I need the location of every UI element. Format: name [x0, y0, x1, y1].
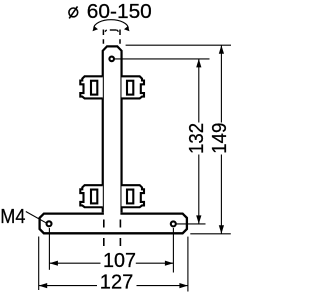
dim 132 vertical: [198, 59, 200, 123]
ext 127 right: [187, 237, 189, 292]
clip lower-left: [80, 185, 103, 207]
pole / vertical bar: [103, 46, 122, 212]
clip lower-right: [122, 185, 145, 207]
top hole: [109, 57, 114, 62]
ext 149 bottom: [190, 233, 231, 235]
arrowheads: [39, 45, 224, 288]
base hole left: [47, 221, 52, 226]
svg-text:107: 107: [103, 250, 136, 272]
149 down: [219, 225, 224, 234]
107 left: [49, 261, 58, 266]
swivel arrow left: [93, 26, 99, 31]
svg-text:132: 132: [186, 123, 208, 154]
clip upper-left: [80, 76, 103, 98]
ext 107 right: [172, 228, 174, 273]
132 up: [196, 59, 201, 68]
M4 leader: [26, 212, 46, 223]
ext 132 top: [115, 58, 210, 60]
clip upper-right: [122, 76, 145, 98]
dimension lines: [39, 45, 231, 291]
ext 149 top: [126, 44, 231, 46]
dashed alternate position outline: [103, 30, 120, 44]
svg-text:127: 127: [100, 272, 134, 294]
ext 132 bottom: [176, 223, 205, 225]
label ø (diameter symbol): [69, 6, 78, 18]
ext 127 left: [38, 237, 40, 291]
svg-text:M4: M4: [0, 206, 25, 228]
ext 107 left: [48, 228, 50, 270]
dim 107: [49, 262, 100, 264]
hidden pole lines (dashed): [104, 220, 121, 247]
127 left: [39, 283, 48, 288]
swivel arrow right: [124, 26, 130, 31]
107 right: [165, 261, 174, 266]
hide base top edge behind pole: [104, 211, 121, 217]
svg-text:60-150: 60-150: [87, 1, 152, 23]
dim 149 vertical: [220, 45, 222, 122]
149 up: [219, 45, 224, 54]
132 down: [196, 215, 201, 224]
base hole right: [171, 221, 176, 226]
swivel arc: [94, 20, 128, 29]
dim 127: [39, 285, 97, 287]
base plate: [40, 214, 187, 234]
127 right: [179, 283, 188, 288]
svg-text:149: 149: [209, 123, 231, 154]
